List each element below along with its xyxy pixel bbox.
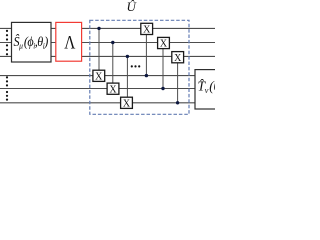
horizontal ellipsis between gate cascades xyxy=(131,65,141,67)
CNOT 4 target X gate on q1 xyxy=(141,23,153,34)
CNOT 1 target X gate on q4 xyxy=(93,70,105,81)
CNOT 4 control dot on q4 xyxy=(145,74,148,77)
svg-text:X: X xyxy=(95,71,103,82)
svg-text:Λ: Λ xyxy=(64,32,76,53)
vertical ellipsis between wires 1-2 xyxy=(6,30,8,41)
CNOT 3 connector (q3 to q6) xyxy=(126,56,128,97)
svg-text:X: X xyxy=(174,53,182,64)
CNOT 5 target X gate on q2 xyxy=(158,37,170,48)
CNOT 3 control dot on q3 xyxy=(126,55,129,58)
wire qubit 5 xyxy=(0,88,195,90)
CNOT 6 target X gate on q3 xyxy=(172,52,184,63)
wire qubit 1 xyxy=(0,27,215,29)
svg-text:Û: Û xyxy=(127,0,138,14)
wire qubit 4 xyxy=(0,75,195,77)
svg-text:X: X xyxy=(160,39,168,50)
wire qubit 6 xyxy=(0,102,195,104)
CNOT 4 connector (q4 to q1) xyxy=(145,35,147,76)
svg-text:X: X xyxy=(109,84,117,95)
wire qubit 2 xyxy=(0,42,215,44)
vertical ellipsis between wires 5-6 xyxy=(6,91,8,101)
svg-text:X: X xyxy=(143,25,151,36)
CNOT 2 target X gate on q5 xyxy=(107,83,119,94)
CNOT 1 connector (q1 to q4) xyxy=(98,28,100,70)
vertical ellipsis between wires 2-3 xyxy=(6,44,8,55)
CNOT 2 control dot on q2 xyxy=(111,41,114,44)
state-preparation box S_mu xyxy=(12,22,52,62)
vertical ellipsis between wires 4-5 xyxy=(6,76,8,86)
svg-text:X: X xyxy=(123,99,131,110)
CNOT 6 connector (q6 to q3) xyxy=(177,63,179,103)
CNOT 1 control dot on q1 xyxy=(97,27,100,30)
channel box Lambda (red) xyxy=(56,22,82,61)
CNOT 3 target X gate on q6 xyxy=(121,97,133,108)
dashed boundary box of unitary U xyxy=(90,20,189,114)
CNOT 2 connector (q2 to q5) xyxy=(112,43,114,84)
CNOT 6 control dot on q6 xyxy=(176,101,179,104)
CNOT 5 connector (q5 to q2) xyxy=(162,49,164,89)
wire qubit 3 xyxy=(0,55,215,57)
CNOT 5 control dot on q5 xyxy=(161,87,164,90)
measurement box T_nu (clipped at right edge) xyxy=(195,70,220,109)
